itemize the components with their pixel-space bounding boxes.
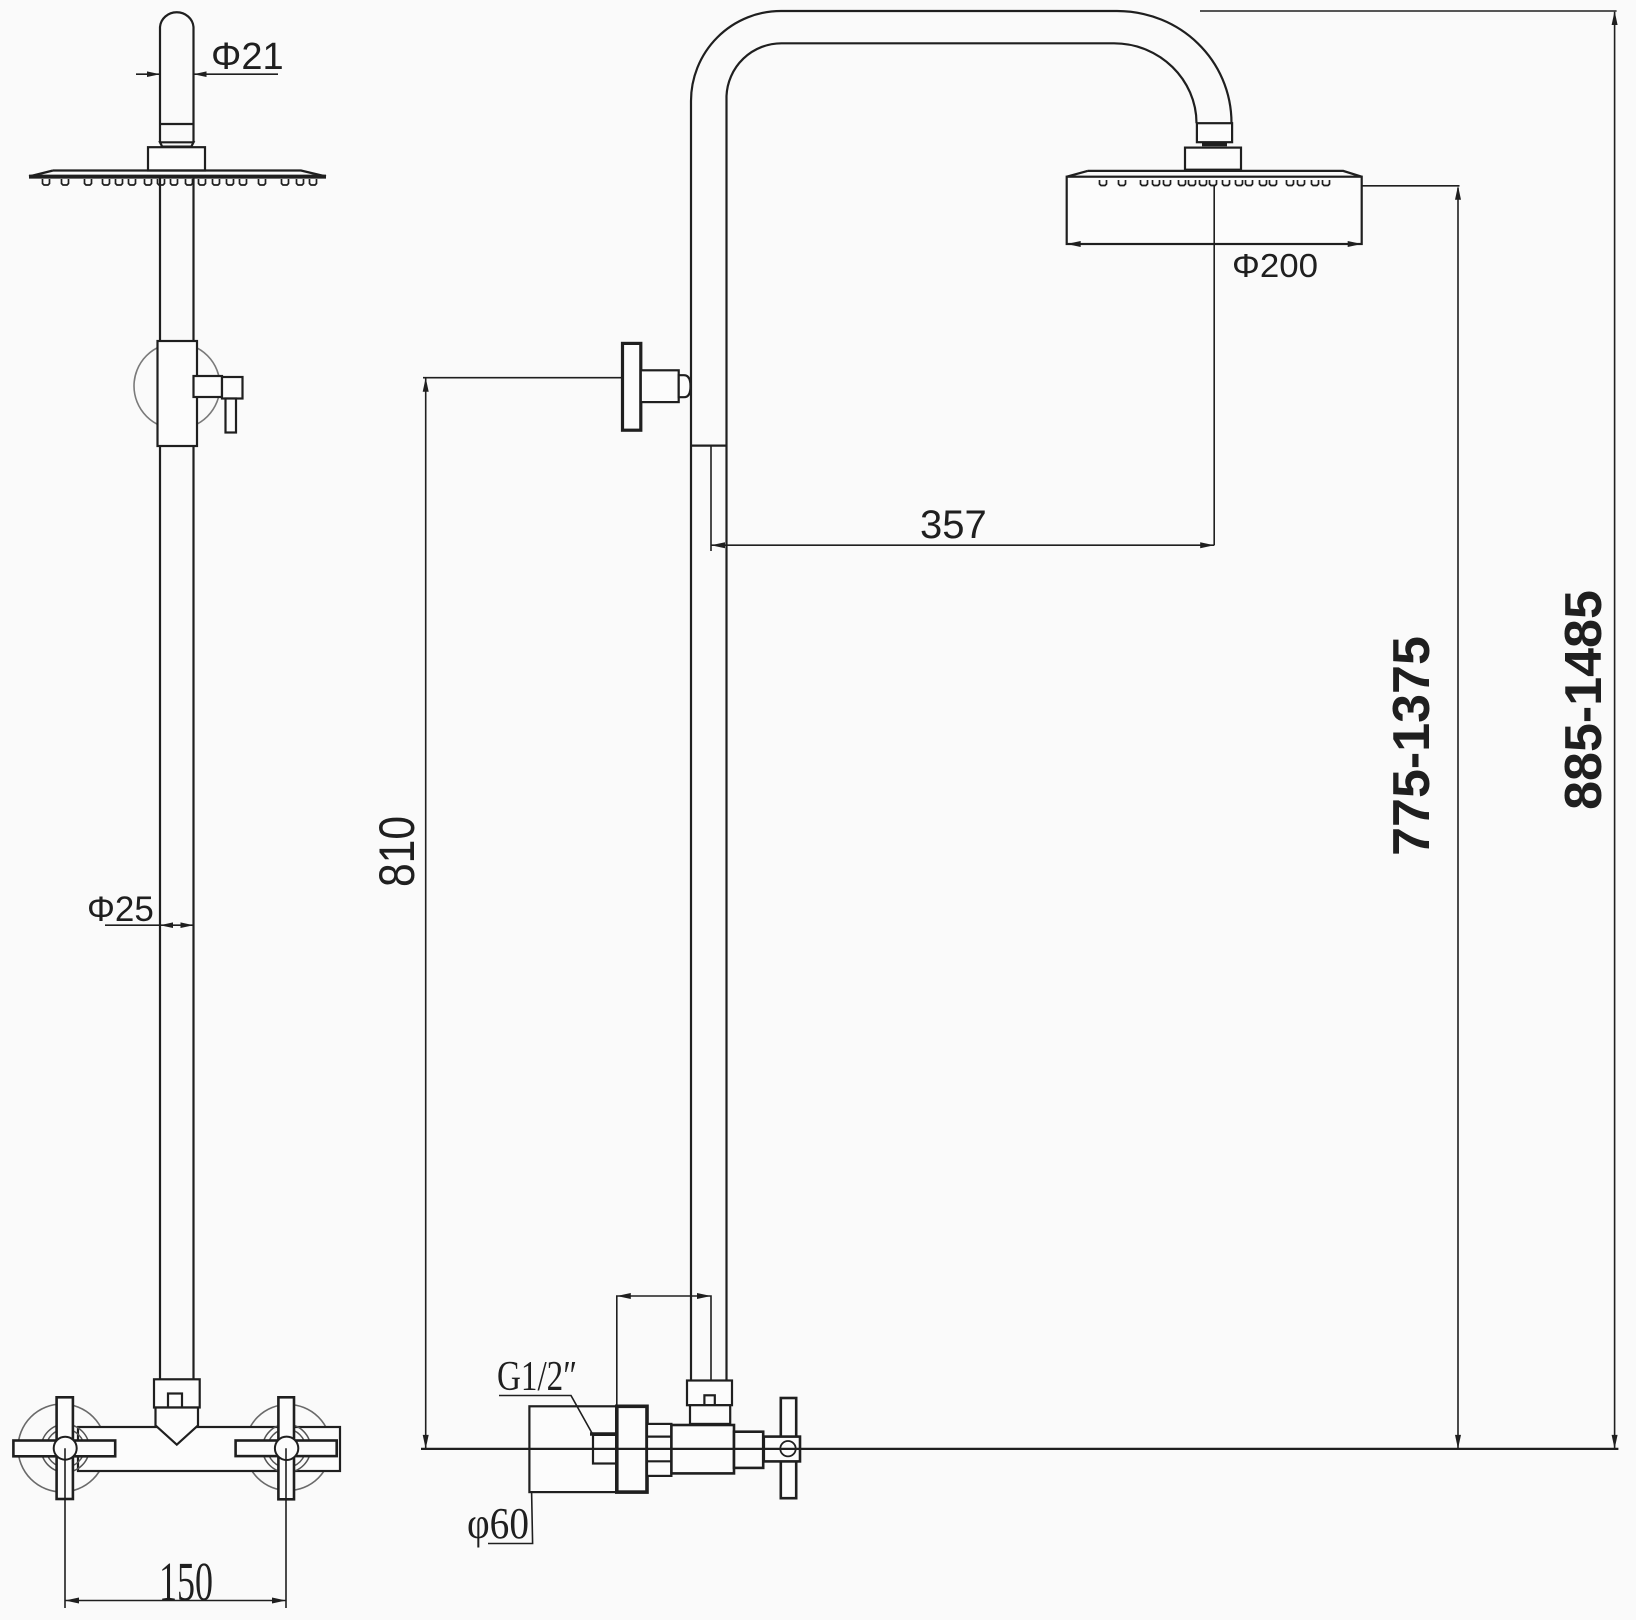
handle hub (side) [764, 1437, 800, 1462]
slider block (front) [158, 341, 198, 446]
left cross handle [13, 1441, 115, 1457]
dim 775-1375 extension [1362, 185, 1460, 187]
svg-text:810: 810 [369, 816, 425, 887]
svg-text:150: 150 [159, 1551, 213, 1612]
valve right port (side) [734, 1432, 763, 1468]
riser pipe (front, lower) [159, 446, 161, 1379]
head body box (side) [1067, 177, 1362, 244]
head centre line [1213, 185, 1215, 545]
mixer body bar (front) [78, 1427, 340, 1471]
G1/2 port (side) [593, 1435, 617, 1464]
357 arrows [711, 542, 725, 548]
wall-to-centre jog arrow [697, 1293, 711, 1299]
svg-text:885-1485: 885-1485 [1555, 590, 1613, 810]
dim 150 extension lines [64, 1448, 66, 1608]
valve centre line [421, 1448, 1618, 1450]
775-1375 arrows [1455, 186, 1461, 200]
bracket handle knob (side) [641, 370, 679, 402]
arm nut (side) [1197, 123, 1232, 142]
Phi60 leader [488, 1492, 533, 1543]
spout shield (front) [156, 1408, 199, 1445]
dim 357 extension [710, 446, 712, 551]
svg-text:φ60: φ60 [467, 1499, 529, 1548]
dim 885-1485 extension [1200, 10, 1617, 12]
shower arm outer contour [691, 11, 1232, 1381]
connector notch [168, 1394, 182, 1408]
head flange (side) [1067, 171, 1362, 177]
dim 810 line [425, 378, 427, 1449]
thick mounting plate (side) [617, 1406, 647, 1492]
Phi25 arrows [160, 922, 173, 928]
lower connector block (front) [154, 1379, 200, 1407]
dim Phi21 [136, 73, 160, 75]
svg-text:357: 357 [920, 503, 987, 547]
svg-text:Φ21: Φ21 [211, 36, 284, 78]
810 arrows [423, 378, 429, 392]
right escutcheon circle [245, 1405, 331, 1491]
shower head plate (edge view) [29, 171, 326, 177]
sleeve joint line (side) [691, 445, 727, 447]
left escutcheon circle [18, 1404, 106, 1492]
diverter handle (front) [194, 376, 223, 397]
Phi21 arrows (outside, pointing in) [147, 71, 160, 77]
dim 357 line [711, 544, 1214, 546]
right valve inner rings [263, 1424, 311, 1472]
shower head mount block (front) [148, 147, 205, 170]
dim Phi25 leader [105, 924, 194, 926]
valve top connector (side) [687, 1381, 732, 1406]
dim 775-1375 line [1457, 188, 1459, 1449]
riser pipe (front, upper) [159, 178, 161, 341]
wall flange Phi60 (side) [529, 1406, 616, 1492]
svg-text:G1/2″: G1/2″ [497, 1354, 577, 1400]
wall bracket plate (side) [623, 343, 641, 430]
top supply pipe with rounded top [160, 12, 194, 142]
nozzles (side) [1100, 180, 1330, 186]
pipe joint line [160, 123, 194, 125]
cross handle bar (side) [781, 1398, 796, 1498]
svg-text:775-1375: 775-1375 [1383, 636, 1441, 856]
left valve inner rings [41, 1424, 89, 1472]
dim 810 extension [423, 377, 623, 379]
valve nut (side) [647, 1424, 671, 1476]
wall-to-centre jog [617, 1296, 711, 1406]
wall bracket escutcheon circle (front) [134, 343, 220, 429]
885-1485 arrows [1612, 11, 1618, 25]
svg-text:Φ200: Φ200 [1232, 247, 1318, 284]
valve body (side) [671, 1425, 734, 1473]
nozzles under head (front) [43, 179, 317, 185]
head mount block (side) [1185, 148, 1241, 170]
right cross handle [236, 1441, 337, 1457]
dim 150 line [65, 1600, 286, 1602]
150 arrows [65, 1598, 79, 1604]
Phi200 arrows (on head box bottom) [1067, 241, 1081, 247]
G1/2 leader [499, 1396, 593, 1435]
dim 885-1485 line [1614, 12, 1616, 1449]
shower arm inner contour [727, 43, 1197, 1380]
bracket handle nub (side) [679, 375, 691, 397]
svg-text:Φ25: Φ25 [87, 890, 154, 929]
pipe bottom chamfer collar [160, 142, 194, 146]
